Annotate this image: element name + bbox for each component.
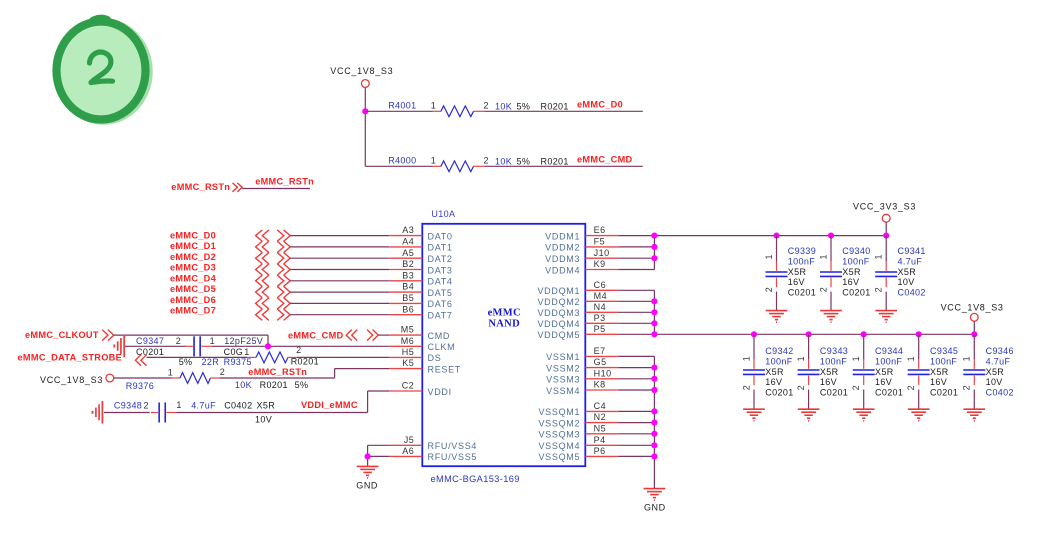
svg-text:2: 2 — [144, 401, 149, 411]
svg-text:1: 1 — [906, 356, 916, 361]
svg-text:VSSQM2: VSSQM2 — [538, 418, 580, 428]
svg-text:C9341: C9341 — [898, 246, 926, 256]
svg-text:1: 1 — [168, 367, 173, 377]
svg-text:VCC_1V8_S3: VCC_1V8_S3 — [941, 303, 1004, 313]
svg-text:VDDM3: VDDM3 — [545, 254, 580, 264]
svg-text:2: 2 — [962, 385, 972, 390]
svg-text:M4: M4 — [594, 291, 608, 301]
svg-text:C9343: C9343 — [820, 346, 848, 356]
svg-text:X5R: X5R — [930, 367, 949, 377]
svg-text:VDDQM2: VDDQM2 — [537, 297, 580, 307]
svg-text:DAT2: DAT2 — [428, 254, 453, 264]
svg-text:C0201: C0201 — [842, 288, 870, 298]
svg-text:K8: K8 — [594, 380, 606, 390]
svg-text:E6: E6 — [594, 225, 606, 235]
svg-text:X5R: X5R — [875, 367, 894, 377]
svg-text:eMMC_D3: eMMC_D3 — [170, 263, 216, 273]
svg-text:eMMC_RSTn: eMMC_RSTn — [171, 182, 230, 192]
svg-text:H5: H5 — [402, 347, 415, 357]
svg-text:E7: E7 — [594, 346, 606, 356]
svg-text:100nF: 100nF — [842, 257, 869, 267]
svg-text:X5R: X5R — [257, 401, 276, 411]
svg-text:VSSM4: VSSM4 — [546, 386, 580, 396]
svg-text:1: 1 — [176, 400, 181, 410]
svg-text:VSSQM1: VSSQM1 — [538, 407, 580, 417]
svg-text:H10: H10 — [594, 368, 612, 378]
svg-text:A5: A5 — [402, 248, 414, 258]
svg-text:B4: B4 — [402, 282, 414, 292]
svg-text:J10: J10 — [594, 248, 610, 258]
svg-text:VSSM1: VSSM1 — [546, 352, 580, 362]
svg-text:N2: N2 — [594, 412, 607, 422]
svg-text:K5: K5 — [402, 358, 414, 368]
svg-text:100nF: 100nF — [820, 357, 847, 367]
svg-text:2: 2 — [874, 287, 884, 292]
svg-text:A6: A6 — [402, 446, 414, 456]
svg-text:U10A: U10A — [431, 209, 455, 219]
svg-text:eMMC_D2: eMMC_D2 — [170, 252, 216, 262]
svg-text:CLKM: CLKM — [428, 342, 456, 352]
svg-text:eMMC_CMD: eMMC_CMD — [577, 154, 633, 164]
svg-text:C0402: C0402 — [898, 288, 926, 298]
svg-text:M6: M6 — [401, 336, 415, 346]
svg-text:2: 2 — [484, 156, 489, 166]
svg-text:X5R: X5R — [820, 367, 839, 377]
svg-text:C9342: C9342 — [765, 346, 793, 356]
svg-text:eMMC_CMD: eMMC_CMD — [288, 330, 344, 340]
svg-text:VDDM4: VDDM4 — [545, 265, 580, 275]
svg-text:16V: 16V — [842, 277, 859, 287]
svg-text:R4000: R4000 — [388, 156, 416, 166]
svg-text:2: 2 — [176, 336, 181, 346]
svg-text:F5: F5 — [594, 237, 606, 247]
svg-text:DAT1: DAT1 — [428, 243, 453, 253]
svg-text:eMMC_RSTn: eMMC_RSTn — [255, 176, 314, 186]
svg-text:16V: 16V — [930, 377, 947, 387]
svg-text:C6: C6 — [594, 280, 607, 290]
svg-text:16V: 16V — [820, 377, 837, 387]
svg-text:GND: GND — [644, 502, 666, 512]
svg-text:VDDM1: VDDM1 — [545, 231, 580, 241]
svg-text:VSSM2: VSSM2 — [546, 363, 580, 373]
svg-text:C9348: C9348 — [114, 401, 142, 411]
svg-text:5%: 5% — [295, 380, 309, 390]
svg-text:VDDQM1: VDDQM1 — [537, 286, 580, 296]
svg-text:1: 1 — [741, 356, 751, 361]
svg-text:R0201: R0201 — [541, 101, 569, 111]
svg-text:GND: GND — [356, 480, 378, 490]
svg-text:C9344: C9344 — [875, 346, 903, 356]
svg-text:eMMC: eMMC — [488, 307, 521, 318]
svg-text:VDDI: VDDI — [428, 387, 452, 397]
svg-text:NAND: NAND — [488, 319, 520, 330]
svg-text:C0201: C0201 — [820, 388, 848, 398]
svg-text:C9347: C9347 — [136, 336, 164, 346]
svg-text:J5: J5 — [404, 435, 415, 445]
svg-text:16V: 16V — [765, 377, 782, 387]
svg-text:VDDQM3: VDDQM3 — [537, 308, 580, 318]
svg-text:10K: 10K — [235, 380, 252, 390]
svg-text:1: 1 — [244, 347, 249, 357]
svg-text:RFU/VSS5: RFU/VSS5 — [428, 452, 478, 462]
svg-text:DAT6: DAT6 — [428, 299, 453, 309]
svg-text:100nF: 100nF — [765, 357, 792, 367]
svg-text:X5R: X5R — [898, 267, 917, 277]
svg-text:eMMC_DATA_STROBE: eMMC_DATA_STROBE — [18, 353, 123, 363]
svg-text:R4001: R4001 — [388, 101, 416, 111]
svg-text:eMMC_D1: eMMC_D1 — [170, 241, 216, 251]
svg-text:X5R: X5R — [765, 367, 784, 377]
svg-text:DAT4: DAT4 — [428, 277, 453, 287]
svg-text:2: 2 — [220, 367, 225, 377]
svg-text:12pF25V: 12pF25V — [224, 336, 263, 346]
svg-text:R9376: R9376 — [126, 381, 154, 391]
svg-text:P6: P6 — [594, 446, 606, 456]
svg-text:C0402: C0402 — [986, 388, 1014, 398]
svg-text:C0201: C0201 — [788, 288, 816, 298]
svg-text:C9339: C9339 — [788, 246, 816, 256]
svg-text:B5: B5 — [402, 293, 414, 303]
svg-text:VCC_3V3_S3: VCC_3V3_S3 — [853, 202, 916, 212]
svg-text:100nF: 100nF — [788, 257, 815, 267]
svg-text:100nF: 100nF — [875, 357, 902, 367]
svg-text:2: 2 — [796, 385, 806, 390]
svg-text:K9: K9 — [594, 259, 606, 269]
svg-text:10K: 10K — [495, 156, 512, 166]
svg-text:1: 1 — [431, 156, 436, 166]
svg-text:DAT3: DAT3 — [428, 265, 453, 275]
svg-text:C9346: C9346 — [986, 346, 1014, 356]
svg-text:R0201: R0201 — [291, 357, 319, 367]
svg-text:VDDI_eMMC: VDDI_eMMC — [301, 400, 358, 410]
svg-text:22R: 22R — [202, 357, 220, 367]
svg-text:1: 1 — [431, 101, 436, 111]
svg-text:2: 2 — [741, 385, 751, 390]
svg-text:R0201: R0201 — [541, 156, 569, 166]
svg-text:1: 1 — [851, 356, 861, 361]
svg-text:N5: N5 — [594, 423, 607, 433]
svg-text:4.7uF: 4.7uF — [898, 257, 923, 267]
svg-text:eMMC_D0: eMMC_D0 — [577, 99, 623, 109]
svg-text:C0201: C0201 — [875, 388, 903, 398]
svg-text:R9375: R9375 — [224, 357, 252, 367]
svg-text:M5: M5 — [401, 325, 415, 335]
svg-text:5%: 5% — [179, 357, 193, 367]
svg-text:VSSQM4: VSSQM4 — [538, 441, 580, 451]
svg-text:1: 1 — [796, 356, 806, 361]
svg-text:2: 2 — [484, 101, 489, 111]
svg-text:R0201: R0201 — [260, 380, 288, 390]
svg-text:1: 1 — [874, 254, 884, 259]
svg-text:eMMC_D5: eMMC_D5 — [170, 284, 216, 294]
svg-text:10V: 10V — [986, 377, 1003, 387]
svg-text:RFU/VSS4: RFU/VSS4 — [428, 441, 478, 451]
svg-text:10V: 10V — [898, 277, 915, 287]
svg-text:DS: DS — [428, 353, 442, 363]
svg-text:4.7uF: 4.7uF — [191, 401, 216, 411]
svg-text:1: 1 — [818, 254, 828, 259]
svg-text:P4: P4 — [594, 435, 606, 445]
svg-text:B6: B6 — [402, 304, 414, 314]
svg-text:16V: 16V — [875, 377, 892, 387]
svg-text:1: 1 — [764, 254, 774, 259]
svg-text:CMD: CMD — [428, 331, 451, 341]
svg-text:VDDQM4: VDDQM4 — [537, 319, 580, 329]
svg-text:X5R: X5R — [788, 267, 807, 277]
svg-text:5%: 5% — [517, 101, 531, 111]
svg-text:VDDQM5: VDDQM5 — [537, 330, 580, 340]
svg-text:2: 2 — [851, 385, 861, 390]
svg-text:A3: A3 — [402, 225, 414, 235]
svg-text:VDDM2: VDDM2 — [545, 243, 580, 253]
svg-text:2: 2 — [906, 385, 916, 390]
svg-text:B3: B3 — [402, 270, 414, 280]
svg-text:VSSQM3: VSSQM3 — [538, 430, 580, 440]
svg-text:VCC_1V8_S3: VCC_1V8_S3 — [40, 375, 103, 385]
svg-text:100nF: 100nF — [930, 357, 957, 367]
svg-text:2: 2 — [296, 345, 301, 355]
svg-text:N4: N4 — [594, 302, 607, 312]
svg-text:1: 1 — [210, 336, 215, 346]
svg-text:2: 2 — [818, 287, 828, 292]
svg-text:C0201: C0201 — [930, 388, 958, 398]
svg-text:P3: P3 — [594, 313, 606, 323]
svg-text:VSSQM5: VSSQM5 — [538, 452, 580, 462]
svg-text:eMMC_D0: eMMC_D0 — [170, 230, 216, 240]
svg-text:2: 2 — [764, 287, 774, 292]
svg-text:C0201: C0201 — [765, 388, 793, 398]
svg-text:C4: C4 — [594, 401, 607, 411]
svg-text:X5R: X5R — [842, 267, 861, 277]
svg-text:eMMC_D7: eMMC_D7 — [170, 306, 216, 316]
svg-text:10K: 10K — [495, 101, 512, 111]
svg-text:C9345: C9345 — [930, 346, 958, 356]
svg-text:eMMC-BGA153-169: eMMC-BGA153-169 — [431, 474, 520, 484]
svg-text:X5R: X5R — [986, 367, 1005, 377]
svg-text:C9340: C9340 — [842, 246, 870, 256]
svg-text:eMMC_RSTn: eMMC_RSTn — [248, 367, 307, 377]
svg-text:eMMC_CLKOUT: eMMC_CLKOUT — [25, 330, 99, 340]
svg-text:1: 1 — [962, 356, 972, 361]
svg-text:5%: 5% — [517, 156, 531, 166]
svg-text:10V: 10V — [255, 414, 272, 424]
svg-text:B2: B2 — [402, 259, 414, 269]
svg-text:P5: P5 — [594, 324, 606, 334]
svg-text:G5: G5 — [594, 357, 607, 367]
svg-text:eMMC_D6: eMMC_D6 — [170, 295, 216, 305]
svg-text:VSSM3: VSSM3 — [546, 375, 580, 385]
svg-text:4.7uF: 4.7uF — [986, 357, 1011, 367]
svg-text:C0402: C0402 — [224, 401, 252, 411]
svg-text:C2: C2 — [402, 381, 415, 391]
svg-text:DAT5: DAT5 — [428, 288, 453, 298]
svg-text:DAT7: DAT7 — [428, 311, 453, 321]
svg-text:DAT0: DAT0 — [428, 231, 453, 241]
svg-text:A4: A4 — [402, 237, 414, 247]
svg-text:RESET: RESET — [428, 364, 462, 374]
svg-text:16V: 16V — [788, 277, 805, 287]
svg-text:VCC_1V8_S3: VCC_1V8_S3 — [330, 66, 393, 76]
svg-text:eMMC_D4: eMMC_D4 — [170, 273, 217, 283]
svg-text:C0G: C0G — [224, 347, 244, 357]
